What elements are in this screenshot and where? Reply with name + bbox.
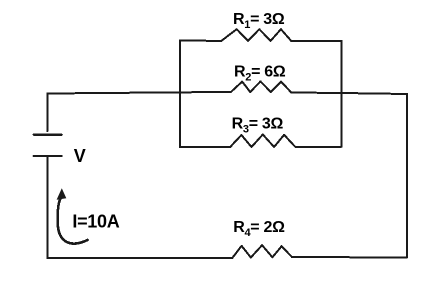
resistor R3 (bottom branch with zigzag): [180, 135, 342, 148]
resistor R2 (middle branch with zigzag): [180, 81, 342, 93]
wire: parallel box right edge: [341, 41, 343, 147]
wire: right horizontal from parallel box to right vertical: [342, 93, 408, 94]
svg-text:R1= 3Ω: R1= 3Ω: [233, 11, 285, 31]
resistor R1 (top branch with zigzag): [180, 29, 342, 41]
svg-text:I=10A: I=10A: [72, 211, 119, 231]
svg-text:R2= 6Ω: R2= 6Ω: [234, 63, 286, 83]
svg-text:R3= 3Ω: R3= 3Ω: [232, 115, 284, 135]
wire: bottom-right segment from R4 to bottom-right corner: [292, 256, 407, 259]
resistor R4 zigzag: [232, 245, 292, 258]
svg-text:R4= 2Ω: R4= 2Ω: [233, 219, 285, 239]
wire: left vertical (battery - down to bottom-left corner): [47, 157, 49, 258]
battery V: top plate: [34, 134, 62, 136]
wire: left vertical (battery + up to top-left corner) and horizontal to parallel box: [48, 92, 181, 131]
current arrow I (arrowhead): [57, 188, 67, 200]
battery V: bottom plate: [34, 155, 62, 157]
svg-text:V: V: [74, 146, 86, 166]
wire: parallel box left edge: [179, 41, 181, 148]
wire: right vertical: [406, 94, 408, 258]
wire: bottom-left segment to resistor R4: [48, 257, 233, 259]
current arrow I (curved shaft): [58, 198, 88, 244]
